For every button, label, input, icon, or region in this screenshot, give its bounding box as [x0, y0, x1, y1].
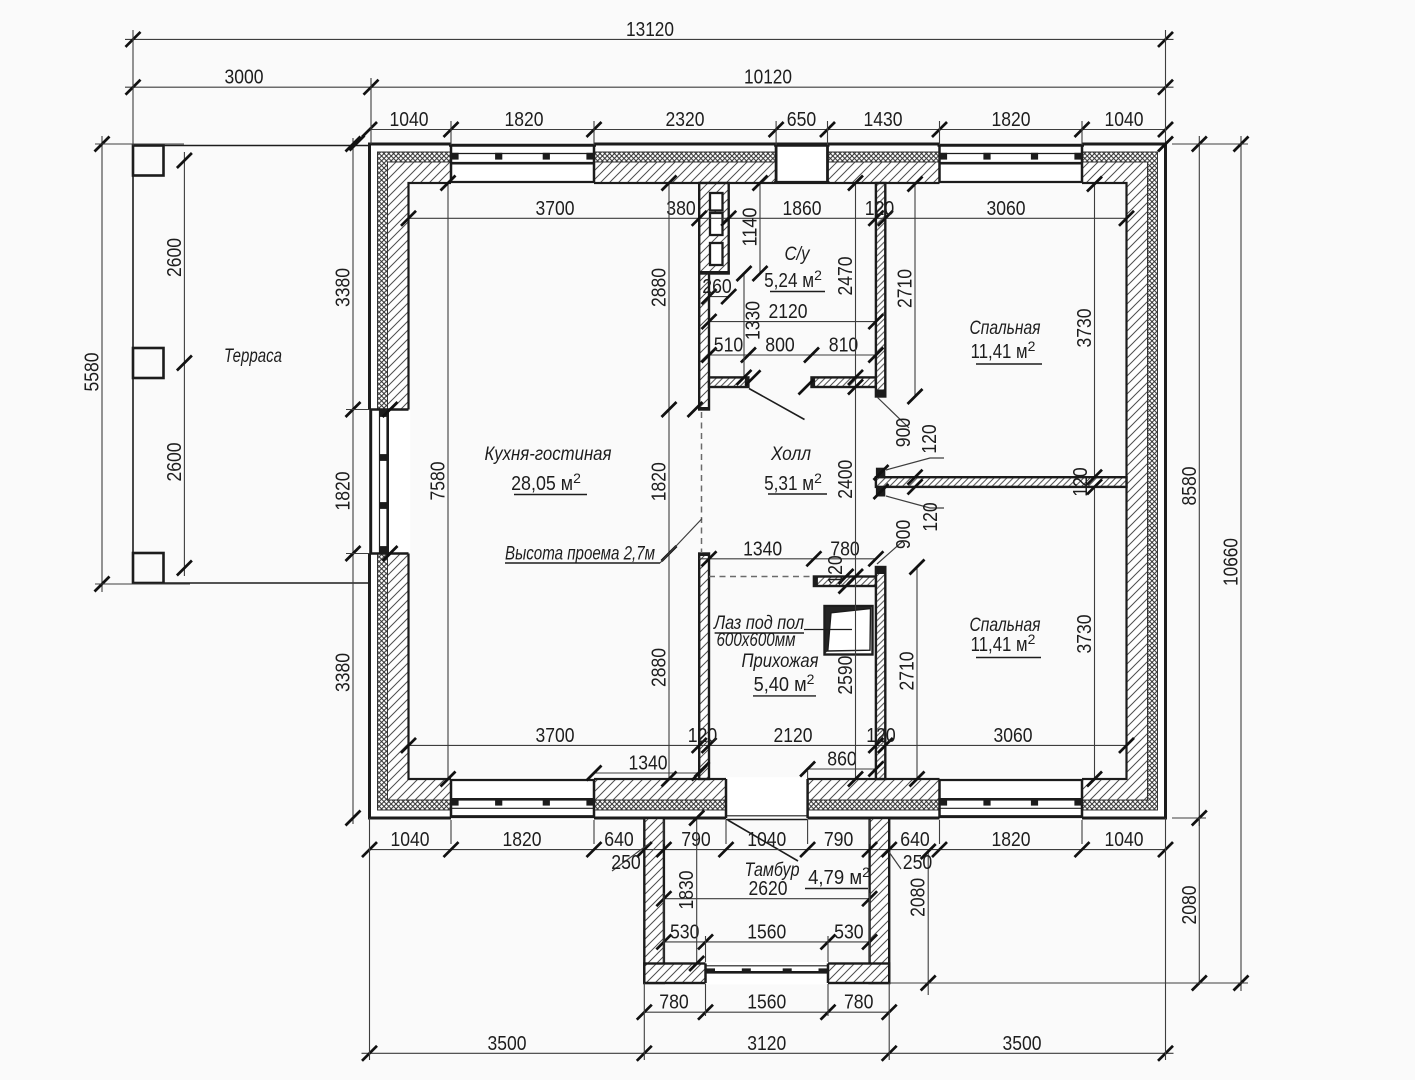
dim 2620 tambour inner width: [656, 877, 877, 906]
svg-text:2120: 2120: [774, 724, 813, 747]
dim 2600/2600 terrace columns: [163, 152, 192, 576]
svg-text:1330: 1330: [741, 301, 764, 340]
partition H junction black stubs: [876, 468, 885, 497]
bottom detail dim row 1040..1040: [362, 828, 1173, 857]
label 120 lower leader: [886, 496, 944, 532]
kitchen east wall upper: [698, 274, 710, 410]
dim 10660 right: [1220, 136, 1249, 991]
interior dim row 3700/120/2120/120/3060 bottom: [401, 724, 1134, 753]
svg-text:5580: 5580: [81, 353, 104, 392]
svg-text:28,05 м2: 28,05 м2: [511, 470, 581, 495]
svg-text:1820: 1820: [992, 108, 1031, 131]
svg-text:Терраса: Терраса: [224, 346, 282, 367]
dim 2080 right outer: [1178, 818, 1207, 991]
svg-text:120: 120: [865, 197, 895, 220]
svg-text:120: 120: [688, 724, 718, 747]
dim 1140 vent wall: [739, 176, 768, 282]
svg-text:120: 120: [918, 424, 941, 454]
svg-text:1820: 1820: [505, 108, 544, 131]
svg-text:260: 260: [702, 275, 732, 298]
svg-text:С/у: С/у: [785, 244, 811, 265]
dimension 13120 top row: [125, 18, 1174, 47]
svg-text:Тамбур: Тамбур: [745, 860, 800, 881]
svg-text:900: 900: [892, 520, 915, 550]
svg-text:640: 640: [604, 828, 634, 851]
label 900 upper leader: [877, 397, 915, 447]
window W3 bottom-left 1820: [451, 777, 594, 820]
svg-text:860: 860: [827, 748, 857, 771]
dim 1830 tambour height: [675, 811, 704, 972]
terrace column 1: [133, 146, 164, 176]
label hall: [764, 444, 827, 495]
svg-text:10660: 10660: [1220, 538, 1243, 586]
dim row 530/1560/530: [656, 920, 877, 949]
hall partition upper (bedroom1 wall): [876, 183, 885, 397]
svg-text:1830: 1830: [675, 871, 698, 910]
svg-text:10120: 10120: [744, 66, 792, 89]
svg-text:530: 530: [834, 920, 864, 943]
svg-text:1560: 1560: [747, 991, 786, 1014]
svg-text:2080: 2080: [907, 878, 930, 917]
svg-text:4,79 м2: 4,79 м2: [808, 864, 870, 889]
svg-text:900: 900: [892, 418, 915, 448]
label bedroom2: [970, 615, 1042, 658]
svg-text:2710: 2710: [894, 269, 917, 308]
svg-text:2470: 2470: [834, 257, 857, 296]
wall corner ticks: [350, 136, 1174, 778]
label Terrasa: [224, 346, 282, 367]
svg-text:3380: 3380: [332, 653, 355, 692]
chimney notch 650 in top wall: [774, 144, 829, 183]
entrance door leaf: [728, 820, 798, 861]
terrace outline: [133, 146, 370, 584]
svg-text:Кухня-гостиная: Кухня-гостиная: [485, 444, 612, 465]
west wall dims 3380/1820/3380: [332, 137, 361, 826]
svg-text:1860: 1860: [783, 197, 822, 220]
svg-text:1040: 1040: [390, 108, 429, 131]
svg-text:7580: 7580: [427, 462, 450, 501]
label prihozhaya: [742, 651, 819, 696]
dashed opening hall-prihozhaya: [709, 576, 814, 578]
bottom dim row 3500/3120/3500: [362, 1032, 1174, 1061]
svg-text:5,40 м2: 5,40 м2: [754, 671, 815, 696]
terrace column 3: [133, 553, 164, 583]
dims 2470/2400/2590 column: [834, 176, 863, 787]
dim 7580 kitchen height: [427, 176, 456, 787]
hall partition lower (bedroom2 wall): [876, 567, 885, 779]
label bathroom: [764, 244, 825, 292]
svg-text:1040: 1040: [1105, 828, 1144, 851]
label floor hatch: [712, 613, 804, 651]
dim 2710 bedroom2: [896, 560, 925, 787]
svg-text:3500: 3500: [488, 1032, 527, 1055]
svg-text:Высота проема 2,7м: Высота проема 2,7м: [505, 544, 655, 565]
svg-text:2600: 2600: [163, 238, 186, 277]
dim 1330: [737, 266, 765, 385]
tambour right wall 250: [870, 818, 890, 983]
bathroom south wall left segment: [709, 377, 748, 387]
svg-text:2600: 2600: [163, 443, 186, 482]
dim 860: [800, 748, 883, 780]
prihozhaya stub wall 780x120: [814, 577, 876, 587]
west window 1820 in left wall: [368, 410, 411, 554]
dim 3730 bedroom2: [1073, 479, 1102, 786]
svg-text:1340: 1340: [629, 752, 668, 775]
svg-text:2400: 2400: [834, 460, 857, 499]
svg-text:1820: 1820: [503, 828, 542, 851]
dim 2120 bathroom width: [702, 300, 884, 329]
svg-text:2590: 2590: [834, 656, 857, 695]
svg-text:Спальная: Спальная: [970, 318, 1041, 339]
label 250 left leader: [611, 843, 650, 874]
dim 2710 bedroom1: [894, 177, 923, 405]
svg-text:5,31 м2: 5,31 м2: [764, 470, 822, 495]
terrace column 2: [133, 348, 164, 378]
svg-text:1040: 1040: [1105, 108, 1144, 131]
svg-text:11,41 м2: 11,41 м2: [971, 338, 1036, 363]
svg-text:1430: 1430: [864, 108, 903, 131]
svg-text:250: 250: [903, 851, 933, 874]
outer wall ring: white core: [370, 144, 1166, 818]
svg-text:2880: 2880: [648, 268, 671, 307]
svg-text:1560: 1560: [747, 920, 786, 943]
dim row 510/800/810 bathroom: [702, 334, 884, 363]
floor hatch symbol 600x600: [804, 606, 873, 655]
entrance door opening 1040 in bottom wall: [726, 777, 808, 819]
svg-text:Прихожая: Прихожая: [742, 651, 819, 672]
window W2 top-right 1820: [938, 142, 1085, 185]
dim 3730 bedroom1: [1073, 177, 1102, 485]
svg-text:5,24 м2: 5,24 м2: [764, 267, 822, 292]
svg-text:3060: 3060: [987, 197, 1026, 220]
top detail dim row 1040/1820/2320/650/1430/1820/1040: [362, 108, 1173, 137]
svg-text:3730: 3730: [1073, 615, 1096, 654]
label tambour: [745, 860, 871, 889]
svg-text:13120: 13120: [626, 18, 674, 41]
svg-text:120: 120: [866, 724, 896, 747]
svg-text:3700: 3700: [536, 724, 575, 747]
svg-text:1820: 1820: [332, 472, 355, 511]
svg-text:1820: 1820: [992, 828, 1031, 851]
extension lines: [95, 30, 1248, 1060]
label bedroom1: [970, 318, 1043, 364]
bathroom south wall right segment: [812, 377, 876, 387]
svg-text:810: 810: [829, 334, 859, 357]
label opening height note: [505, 519, 702, 565]
window W1 top-left 1820: [449, 142, 596, 185]
svg-text:3000: 3000: [225, 66, 264, 89]
svg-text:120: 120: [919, 502, 942, 532]
label 120 stub: [824, 555, 847, 585]
svg-text:1040: 1040: [391, 828, 430, 851]
kitchen east wall lower: [698, 554, 710, 780]
dim 260 vent overhang: [702, 275, 737, 304]
label 900 lower leader: [877, 520, 915, 564]
svg-text:530: 530: [670, 920, 700, 943]
svg-text:380: 380: [666, 197, 696, 220]
dims 2880/1820/2880 kitchen east: [648, 176, 677, 787]
svg-text:2710: 2710: [896, 652, 919, 691]
vent wall 380 with ducts: [698, 183, 730, 274]
svg-text:1340: 1340: [743, 537, 782, 560]
svg-text:Холл: Холл: [770, 444, 811, 465]
dim 8580 right: [1178, 136, 1207, 826]
svg-text:2320: 2320: [666, 108, 705, 131]
svg-text:800: 800: [765, 334, 795, 357]
dim 2080 tambour right: [907, 844, 936, 995]
svg-text:510: 510: [714, 334, 744, 357]
svg-text:780: 780: [844, 991, 874, 1014]
svg-text:640: 640: [900, 828, 930, 851]
svg-text:120: 120: [824, 555, 847, 585]
dim 1340 window to wall: [587, 752, 707, 781]
svg-text:600х600мм: 600х600мм: [717, 630, 796, 651]
svg-text:1140: 1140: [739, 208, 762, 247]
svg-text:3500: 3500: [1003, 1032, 1042, 1055]
svg-text:11,41 м2: 11,41 м2: [971, 631, 1036, 656]
svg-text:2080: 2080: [1178, 886, 1201, 925]
mid partition between bedrooms 120: [876, 477, 1127, 487]
svg-text:1820: 1820: [648, 462, 671, 501]
tambour left wall 250: [644, 818, 664, 983]
svg-text:8580: 8580: [1178, 467, 1201, 506]
dim row 1340/780 hall bottom: [699, 537, 883, 566]
dim row 780/1560/780: [637, 991, 897, 1020]
svg-text:650: 650: [787, 108, 817, 131]
dimension 5580 terrace: [81, 136, 110, 592]
svg-text:3730: 3730: [1073, 309, 1096, 348]
svg-text:780: 780: [659, 991, 689, 1014]
window W4 bottom-right 1820: [940, 777, 1083, 820]
svg-text:3700: 3700: [536, 197, 575, 220]
svg-text:2120: 2120: [769, 300, 808, 323]
dashed opening kitchen-hall: [701, 412, 703, 553]
dimension 3000 / 10120 row: [125, 66, 1174, 95]
svg-text:3120: 3120: [747, 1032, 786, 1055]
bathroom door leaf: [749, 389, 805, 420]
label kitchen-living: [485, 444, 612, 495]
svg-text:2880: 2880: [648, 648, 671, 687]
svg-text:3060: 3060: [994, 724, 1033, 747]
tambour bottom wall 250 with window: [644, 962, 889, 985]
label 250 right leader: [889, 851, 932, 874]
label 120 upper leader: [886, 424, 944, 470]
svg-text:790: 790: [681, 828, 711, 851]
svg-text:3380: 3380: [332, 268, 355, 307]
svg-text:1040: 1040: [747, 828, 786, 851]
svg-text:790: 790: [824, 828, 854, 851]
interior dim row 3700/380/1860/120/3060: [401, 197, 1134, 226]
dim 120 mid partition label: [1069, 467, 1092, 497]
svg-text:250: 250: [611, 851, 641, 874]
